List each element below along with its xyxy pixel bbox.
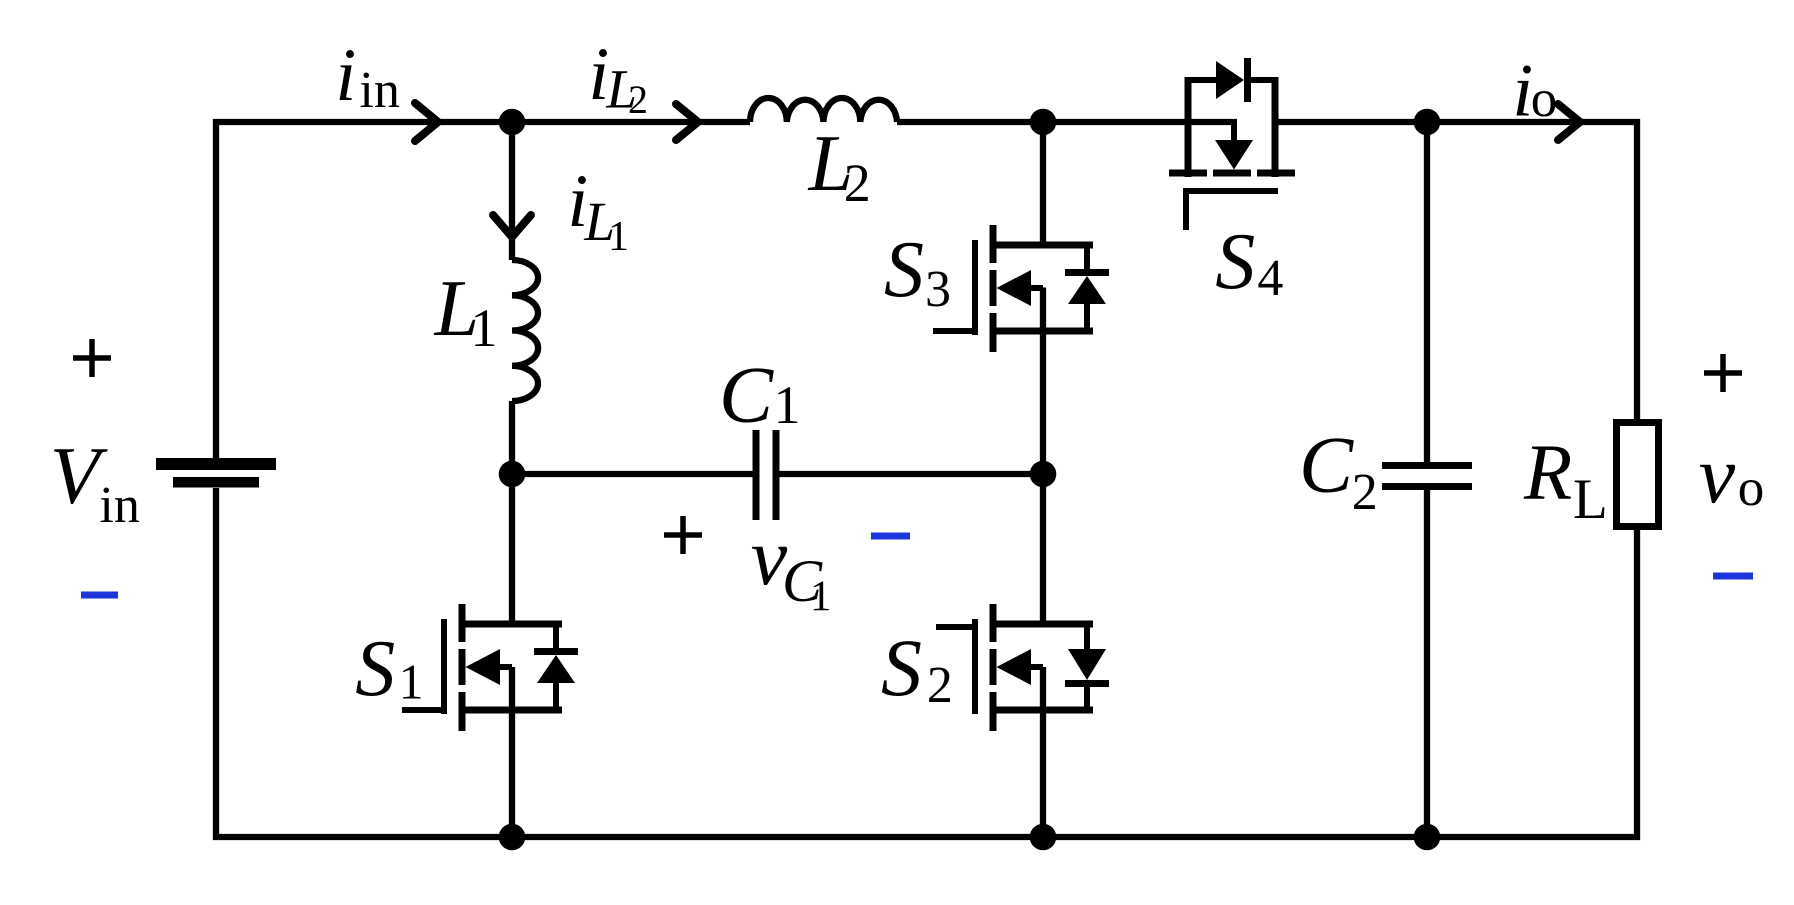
svg-text:3: 3 <box>925 261 951 318</box>
label RL <box>1523 430 1608 531</box>
arrow i_o <box>1558 104 1580 140</box>
svg-text:S: S <box>1215 218 1255 306</box>
wire <box>897 119 1237 125</box>
label L1 <box>434 265 498 358</box>
svg-text:S: S <box>884 226 924 314</box>
node G (bottom mid) <box>1030 824 1057 851</box>
label C1 <box>719 350 801 440</box>
wire <box>1040 474 1046 628</box>
svg-text:2: 2 <box>1352 464 1378 521</box>
arrow i_L2 <box>676 104 698 140</box>
label i_o <box>1512 50 1557 133</box>
minus sign vo (blue) <box>1713 573 1753 580</box>
resistor RL <box>1617 423 1659 527</box>
wire <box>216 488 1637 837</box>
svg-text:4: 4 <box>1257 250 1283 307</box>
wire <box>509 474 515 628</box>
svg-text:2: 2 <box>927 657 953 714</box>
svg-text:1: 1 <box>810 573 832 620</box>
inductor L2 <box>750 98 897 122</box>
arrow i_L1 <box>493 215 531 237</box>
node A (top junction of L1) <box>499 109 526 136</box>
voltage source Vin <box>156 458 276 488</box>
wire <box>1424 490 1430 837</box>
capacitor C1 <box>753 430 780 520</box>
svg-text:R: R <box>1523 430 1572 517</box>
label S3 <box>884 226 951 318</box>
wire <box>1040 667 1046 837</box>
wire <box>509 667 515 837</box>
node C (top of C2) <box>1414 109 1441 136</box>
node F (bottom left) <box>499 824 526 851</box>
wire <box>216 122 750 458</box>
inductor L1 <box>512 260 538 401</box>
plus sign Vin <box>73 339 111 377</box>
svg-text:1: 1 <box>774 375 801 435</box>
wire <box>1275 122 1637 419</box>
svg-text:S: S <box>355 625 395 713</box>
node H (bottom of C2) <box>1414 824 1441 851</box>
svg-text:in: in <box>99 477 139 534</box>
svg-text:C: C <box>719 350 774 440</box>
svg-text:2: 2 <box>844 153 871 213</box>
minus sign C1 (blue) <box>871 533 910 540</box>
plus sign vo <box>1704 354 1742 392</box>
wire <box>509 401 515 474</box>
transistor S2 <box>936 604 1109 731</box>
node D (mid junction left) <box>499 461 526 488</box>
svg-text:S: S <box>881 622 922 713</box>
svg-text:o: o <box>1531 70 1558 128</box>
plus sign C1 <box>664 516 702 554</box>
wire <box>509 122 515 260</box>
label i_L1 <box>567 160 629 260</box>
wire <box>780 471 1044 477</box>
capacitor C2 <box>1382 462 1472 490</box>
wire <box>1040 122 1046 249</box>
label v_o <box>1699 429 1765 520</box>
svg-text:C: C <box>1299 420 1354 510</box>
transistor S4 <box>1169 58 1295 230</box>
node B (top of S3 leg) <box>1030 109 1057 136</box>
svg-text:o: o <box>1738 459 1765 517</box>
label L2 <box>808 120 871 213</box>
svg-text:1: 1 <box>399 654 424 710</box>
label v_C1 <box>751 511 832 620</box>
svg-text:L: L <box>1573 468 1608 531</box>
label S1 <box>355 625 423 713</box>
svg-text:2: 2 <box>628 77 648 122</box>
label S2 <box>881 622 953 714</box>
node E (mid junction right) <box>1030 461 1057 488</box>
wire <box>512 471 753 477</box>
wire <box>1040 288 1046 475</box>
svg-text:i: i <box>335 34 356 117</box>
label S4 <box>1215 218 1283 307</box>
label i_L2 <box>588 33 648 122</box>
label C2 <box>1299 420 1378 521</box>
wire <box>1424 122 1430 462</box>
transistor S3 <box>933 225 1109 352</box>
svg-text:v: v <box>1699 429 1736 520</box>
minus sign Vin (blue) <box>81 592 118 599</box>
label i_in <box>335 34 399 119</box>
arrow i_in <box>415 103 438 141</box>
svg-text:1: 1 <box>471 298 498 358</box>
svg-text:in: in <box>359 62 399 119</box>
svg-text:1: 1 <box>608 214 629 260</box>
transistor S1 <box>402 604 578 731</box>
label Vin <box>50 430 140 534</box>
